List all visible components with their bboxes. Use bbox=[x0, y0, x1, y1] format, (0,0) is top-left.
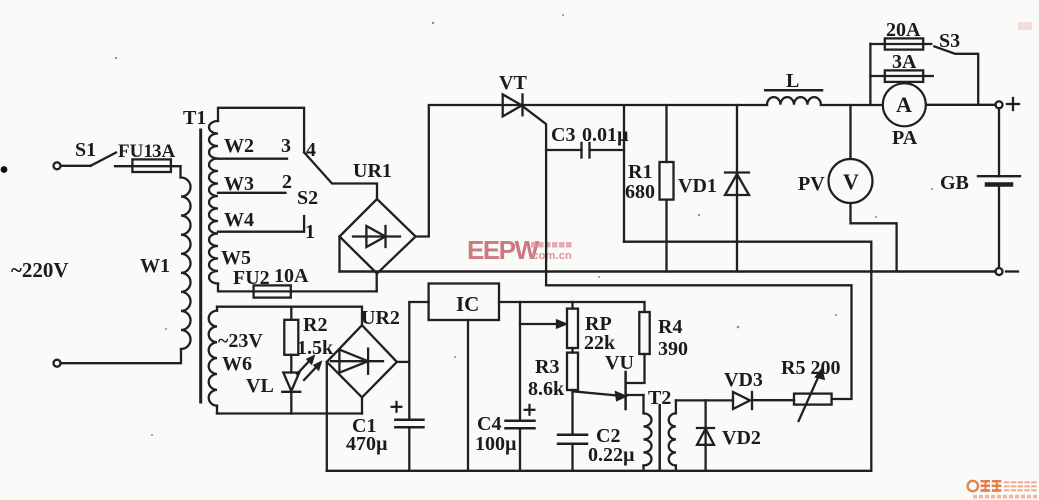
svg-text:~220V: ~220V bbox=[11, 258, 69, 282]
svg-text:W3: W3 bbox=[224, 173, 254, 195]
svg-text:1.5k: 1.5k bbox=[297, 337, 334, 359]
svg-text:T2: T2 bbox=[648, 387, 671, 409]
svg-text:FU2: FU2 bbox=[233, 267, 270, 289]
svg-text:FU1: FU1 bbox=[118, 141, 153, 162]
svg-text:W4: W4 bbox=[224, 209, 254, 231]
svg-text:2: 2 bbox=[282, 171, 292, 193]
svg-text:L: L bbox=[786, 70, 799, 92]
svg-text:100µ: 100µ bbox=[475, 433, 517, 455]
svg-text:VL: VL bbox=[246, 375, 274, 397]
svg-text:PV: PV bbox=[798, 173, 825, 195]
svg-text:W5: W5 bbox=[221, 247, 251, 269]
svg-text:S3: S3 bbox=[939, 30, 960, 52]
svg-text:S2: S2 bbox=[297, 187, 318, 209]
svg-text:PA: PA bbox=[892, 127, 918, 149]
svg-text:VD3: VD3 bbox=[724, 369, 763, 391]
svg-text:22k: 22k bbox=[584, 332, 616, 354]
svg-text:R1: R1 bbox=[628, 161, 652, 183]
svg-text:GB: GB bbox=[940, 172, 969, 194]
svg-text:S1: S1 bbox=[75, 139, 96, 161]
svg-text:1: 1 bbox=[305, 221, 315, 243]
svg-text:UR1: UR1 bbox=[353, 160, 392, 182]
svg-text:R4: R4 bbox=[658, 316, 682, 338]
svg-text:VD1: VD1 bbox=[678, 175, 717, 197]
svg-text:3: 3 bbox=[281, 135, 291, 157]
svg-text:C3: C3 bbox=[551, 124, 575, 146]
svg-text:680: 680 bbox=[625, 181, 655, 203]
svg-text:C4: C4 bbox=[477, 413, 501, 435]
svg-text:IC: IC bbox=[456, 292, 479, 316]
svg-text:0.22µ: 0.22µ bbox=[588, 444, 635, 466]
svg-text:A: A bbox=[896, 92, 912, 117]
svg-text:UR2: UR2 bbox=[361, 307, 400, 329]
svg-text:W2: W2 bbox=[224, 135, 254, 157]
svg-text:470µ: 470µ bbox=[346, 433, 388, 455]
svg-text:~23V: ~23V bbox=[218, 330, 263, 352]
svg-text:W1: W1 bbox=[140, 255, 170, 277]
svg-text:V: V bbox=[843, 169, 859, 194]
svg-text:VD2: VD2 bbox=[722, 427, 761, 449]
svg-text:.com.cn: .com.cn bbox=[529, 250, 572, 262]
svg-text:20A: 20A bbox=[886, 19, 921, 41]
svg-text:3A: 3A bbox=[892, 51, 917, 73]
svg-text:8.6k: 8.6k bbox=[528, 378, 565, 400]
svg-text:VU: VU bbox=[605, 352, 634, 374]
svg-text:10A: 10A bbox=[274, 265, 309, 287]
svg-text:R3: R3 bbox=[535, 356, 559, 378]
svg-text:4: 4 bbox=[306, 139, 316, 161]
svg-text:390: 390 bbox=[658, 338, 688, 360]
svg-text:T1: T1 bbox=[183, 107, 206, 129]
svg-text:3A: 3A bbox=[152, 141, 176, 162]
svg-text:R5 200: R5 200 bbox=[781, 357, 840, 379]
svg-text:R2: R2 bbox=[303, 314, 327, 336]
svg-text:0.01µ: 0.01µ bbox=[582, 124, 629, 146]
svg-text:VT: VT bbox=[499, 72, 527, 94]
svg-text:W6: W6 bbox=[222, 353, 252, 375]
